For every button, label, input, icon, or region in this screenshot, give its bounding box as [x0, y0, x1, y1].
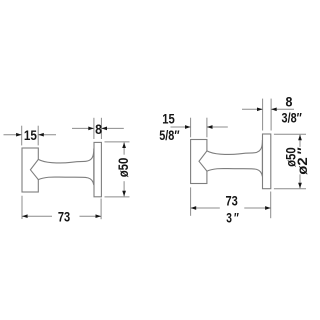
dim 15/5-8in left arrow: [185, 125, 191, 129]
dim 73/3in left arrow: [191, 206, 197, 210]
svg-text:ø2 ″: ø2 ″: [295, 147, 311, 175]
dim ø50/ø2in down arrow: [298, 183, 302, 189]
front disc (left view): [94, 142, 101, 196]
svg-text:73: 73: [58, 210, 70, 226]
svg-text:3/8″: 3/8″: [282, 110, 302, 126]
svg-text:73: 73: [225, 193, 237, 209]
dim 8 right arrow: [101, 127, 107, 131]
stem with chevron notch (left view): [30, 149, 93, 186]
dim 15 right arrow: [38, 133, 44, 137]
svg-text:ø50: ø50: [116, 158, 132, 178]
dim 73: extension + dimension lines (left view total depth): [22, 196, 101, 219]
dim ø50: extension + dimension lines (left view disc diameter): [105, 142, 130, 197]
dim ø50 down arrow: [122, 191, 126, 197]
dim 15 / 5/8 inch: extension + dimension lines (right view plate width): [171, 118, 228, 138]
wall plate (left view): [22, 148, 38, 192]
dim 15: extension + dimension lines (left view plate width): [4, 126, 57, 146]
dim ø50 up arrow: [122, 142, 126, 148]
dim 8 left arrow: [88, 127, 94, 131]
dim ø50 / ø2 inch: extension + dimension lines (right view disc diameter): [274, 134, 306, 189]
dim 73 left arrow: [22, 214, 28, 218]
dim 73 / 3 inch: extension + dimension lines (right view total depth): [191, 187, 271, 218]
dim 8/3-8in left arrow: [257, 107, 263, 111]
dim ø50/ø2in up arrow: [298, 135, 302, 141]
dim 15/5-8in right arrow: [207, 125, 213, 129]
svg-text:3 ″: 3 ″: [226, 210, 239, 226]
dim 73/3in right arrow: [265, 206, 271, 210]
dim 8/3-8in right arrow: [271, 107, 277, 111]
svg-text:8: 8: [95, 122, 102, 138]
wall plate (right view): [191, 140, 207, 184]
dim 8 / 3/8 inch: extension + dimension lines (right view disc width): [242, 99, 294, 131]
svg-text:15: 15: [24, 128, 37, 144]
dim 73 right arrow: [96, 214, 102, 218]
front disc (right view): [263, 134, 271, 189]
svg-text:5/8″: 5/8″: [159, 128, 179, 144]
dim 8: extension + dimension lines (left view disc width): [72, 118, 124, 139]
svg-text:15: 15: [162, 111, 175, 127]
svg-text:8: 8: [285, 94, 292, 110]
dim 15 left arrow: [16, 133, 22, 137]
stem with chevron notch (right view): [199, 140, 262, 177]
